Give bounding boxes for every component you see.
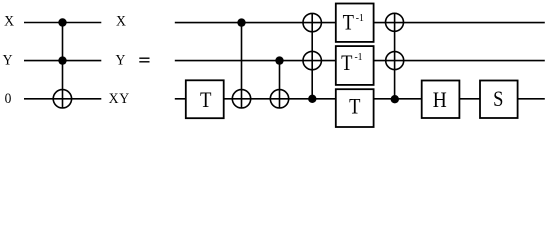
svg-text:X: X	[116, 13, 127, 30]
wire Y (left circuit, middle)	[24, 60, 101, 62]
wire 3 (right circuit, bottom qubit)	[175, 98, 545, 100]
gate T-inverse box (top wire)	[336, 4, 374, 42]
svg-text:Y: Y	[3, 52, 14, 69]
svg-text:0: 0	[5, 91, 12, 108]
XOR target on 0 wire	[53, 90, 71, 108]
CNOT 2 control dot (middle wire)	[275, 56, 283, 64]
CNOT 2 target (bottom wire)	[270, 90, 288, 108]
CNOT 1 vertical connector	[241, 23, 243, 108]
gate H box (bottom wire)	[422, 81, 460, 119]
gate S box (bottom wire)	[480, 81, 518, 119]
wire 0 (left circuit, bottom)	[24, 98, 101, 100]
column 4 vertical connector	[394, 13, 396, 99]
svg-text:S: S	[493, 88, 503, 112]
CNOT 2 vertical connector	[279, 61, 281, 108]
svg-text:T: T	[341, 52, 353, 76]
wire 2 (right circuit, middle qubit)	[175, 60, 545, 62]
gate T-inverse box (middle wire)	[336, 46, 374, 85]
control dot on Y wire	[58, 56, 66, 64]
column 3 target on middle wire	[303, 51, 321, 69]
CNOT 1 control dot (top wire)	[237, 18, 245, 26]
control dot on X wire	[58, 18, 66, 26]
column 3 vertical connector	[311, 13, 313, 98]
Toffoli vertical connector	[62, 23, 64, 109]
wire X (left circuit, top)	[24, 22, 101, 24]
column 4 target on middle wire	[386, 52, 404, 70]
wire 1 (right circuit, top qubit)	[175, 22, 545, 24]
equals sign (upper bar)	[139, 58, 149, 59]
equals sign (lower bar)	[139, 61, 149, 62]
column 4 target on top wire	[386, 13, 404, 31]
svg-text:T: T	[343, 11, 355, 35]
svg-text:T: T	[349, 95, 361, 119]
column 3 control dot (bottom wire)	[308, 95, 316, 103]
CNOT 1 target (bottom wire)	[232, 90, 250, 108]
svg-text:XY: XY	[109, 90, 130, 107]
svg-text:X: X	[4, 13, 15, 30]
gate T box (bottom wire, second)	[336, 89, 374, 127]
gate T box (bottom wire, first)	[186, 80, 224, 118]
svg-text:H: H	[433, 87, 447, 113]
svg-text:Y: Y	[116, 52, 127, 69]
svg-text:T: T	[200, 88, 212, 112]
svg-text:-1: -1	[354, 51, 362, 63]
svg-text:-1: -1	[356, 12, 364, 24]
column 4 control dot (bottom wire)	[391, 95, 399, 103]
column 3 target on top wire	[303, 13, 321, 31]
